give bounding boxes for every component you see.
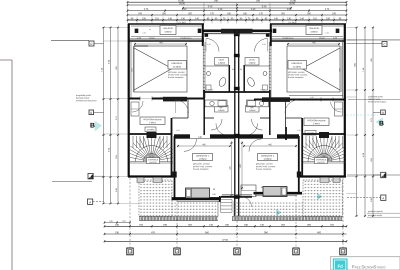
svg-text:5.80m2: 5.80m2 <box>149 122 157 124</box>
svg-text:PREDSOBA HODNIK: PREDSOBA HODNIK <box>307 119 326 122</box>
svg-text:1.20: 1.20 <box>297 130 301 132</box>
svg-text:90: 90 <box>240 69 242 71</box>
svg-text:B: B <box>382 111 384 115</box>
svg-text:5.80m2: 5.80m2 <box>313 123 321 125</box>
svg-text:B: B <box>90 111 92 115</box>
svg-text:20.90: 20.90 <box>179 3 185 5</box>
svg-text:4.00m2: 4.00m2 <box>164 31 172 33</box>
svg-text:ESIGN: ESIGN <box>364 265 373 269</box>
svg-text:21.09m2: 21.09m2 <box>293 66 302 68</box>
svg-text:VETR.: VETR. <box>218 60 225 62</box>
svg-text:1.20: 1.20 <box>176 130 180 132</box>
svg-text:DNEVNI B.: DNEVNI B. <box>172 63 183 65</box>
svg-text:4.00m2: 4.00m2 <box>310 31 318 33</box>
svg-text:parket, hrast, zavrsna: parket, hrast, zavrsna <box>256 165 276 168</box>
svg-text:gletovane, zavrsne: gletovane, zavrsne <box>256 163 274 166</box>
svg-text:90: 90 <box>232 69 234 71</box>
svg-text:gletovane, zavrsne: gletovane, zavrsne <box>288 71 306 74</box>
svg-text:TN 09: TN 09 <box>208 90 213 92</box>
svg-text:drvena, lamperija: drvena, lamperija <box>193 169 209 171</box>
svg-text:parket, hrast, zavrsna: parket, hrast, zavrsna <box>288 73 308 76</box>
svg-text:12x 93/5: 12x 93/5 <box>178 22 187 24</box>
svg-text:xx: xx <box>149 29 151 31</box>
svg-text:granicna ograda: granicna ograda <box>368 211 383 213</box>
svg-text:drvena, lamperija: drvena, lamperija <box>256 169 272 171</box>
svg-text:temeljna zavrsna ploca: temeljna zavrsna ploca <box>76 99 97 102</box>
svg-text:21.09m2: 21.09m2 <box>173 66 182 68</box>
svg-text:A: A <box>90 175 92 179</box>
svg-text:14.89m2: 14.89m2 <box>263 159 272 161</box>
svg-text:16x18/25: 16x18/25 <box>149 162 156 164</box>
svg-text:A: A <box>382 174 384 178</box>
svg-text:Pxxda RExx: Pxxda RExx <box>181 38 192 40</box>
svg-text:3.30: 3.30 <box>251 9 256 11</box>
svg-text:okucnica medja: okucnica medja <box>368 215 383 217</box>
svg-text:WC: WC <box>251 107 255 109</box>
svg-text:betonski nosac: betonski nosac <box>76 97 89 100</box>
svg-text:3.75: 3.75 <box>144 9 149 11</box>
svg-text:B: B <box>379 121 384 128</box>
svg-text:DORMITOR 1: DORMITOR 1 <box>196 156 210 158</box>
svg-text:TUDIO: TUDIO <box>376 265 386 269</box>
svg-text:5.40: 5.40 <box>208 6 213 8</box>
svg-text:Fd: Fd <box>337 264 343 269</box>
svg-text:1.85m2: 1.85m2 <box>218 63 226 65</box>
svg-text:A: A <box>89 200 91 204</box>
svg-text:41.80: 41.80 <box>178 0 184 2</box>
svg-text:1.85m2: 1.85m2 <box>218 110 226 112</box>
svg-text:1.85m2: 1.85m2 <box>249 63 257 65</box>
svg-text:parket, hrast, zavrsna: parket, hrast, zavrsna <box>193 165 213 168</box>
svg-text:2.40: 2.40 <box>160 97 164 99</box>
svg-text:drvena, lamperija: drvena, lamperija <box>168 77 184 79</box>
svg-text:16x18/25: 16x18/25 <box>317 162 324 164</box>
svg-text:3.75: 3.75 <box>325 9 330 11</box>
svg-text:3.90: 3.90 <box>287 9 292 11</box>
svg-text:20.90: 20.90 <box>289 3 295 5</box>
svg-text:drvena, lamperija: drvena, lamperija <box>288 77 304 79</box>
svg-text:REE: REE <box>355 265 361 269</box>
svg-text:parket, hrast, zavrsna: parket, hrast, zavrsna <box>168 73 188 76</box>
svg-text:2.40: 2.40 <box>310 97 314 99</box>
svg-text:2.10: 2.10 <box>262 44 266 46</box>
svg-text:2.10: 2.10 <box>207 44 211 46</box>
svg-text:2.40: 2.40 <box>142 32 146 34</box>
svg-text:Pxxda: Pxxda <box>149 38 155 40</box>
svg-text:DNEVNI B.: DNEVNI B. <box>292 63 303 65</box>
svg-text:Pxxda RExx: Pxxda RExx <box>283 38 294 40</box>
svg-text:gletovane, zavrsne: gletovane, zavrsne <box>193 163 211 166</box>
svg-text:TN 09: TN 09 <box>260 90 265 92</box>
svg-text:3.90: 3.90 <box>182 9 187 11</box>
svg-text:udaljenost greda: udaljenost greda <box>368 95 384 98</box>
svg-text:WC: WC <box>220 107 224 109</box>
svg-text:Pxxda: Pxxda <box>319 38 325 40</box>
svg-text:A: A <box>382 196 384 200</box>
svg-text:DORMITOR 2: DORMITOR 2 <box>261 156 275 158</box>
svg-text:2.40: 2.40 <box>325 32 329 34</box>
svg-text:BALKON: BALKON <box>310 27 319 30</box>
svg-text:B: B <box>90 123 95 130</box>
svg-text:41.80: 41.80 <box>290 0 296 2</box>
svg-text:BALKON: BALKON <box>164 27 173 30</box>
svg-text:3.30: 3.30 <box>218 9 223 11</box>
svg-text:VETR.: VETR. <box>249 60 256 62</box>
svg-text:14.89m2: 14.89m2 <box>198 159 207 161</box>
svg-text:16x: 16x <box>152 132 155 134</box>
svg-text:1.85m2: 1.85m2 <box>249 110 257 112</box>
svg-text:PREDSOBA HODNIK: PREDSOBA HODNIK <box>143 118 162 121</box>
svg-text:gletovane, zavrsne: gletovane, zavrsne <box>168 71 186 74</box>
svg-text:47.50: 47.50 <box>222 240 228 242</box>
svg-text:temelj zavrsna ploca: temelj zavrsna ploca <box>368 100 387 103</box>
svg-text:5.40: 5.40 <box>262 6 267 8</box>
